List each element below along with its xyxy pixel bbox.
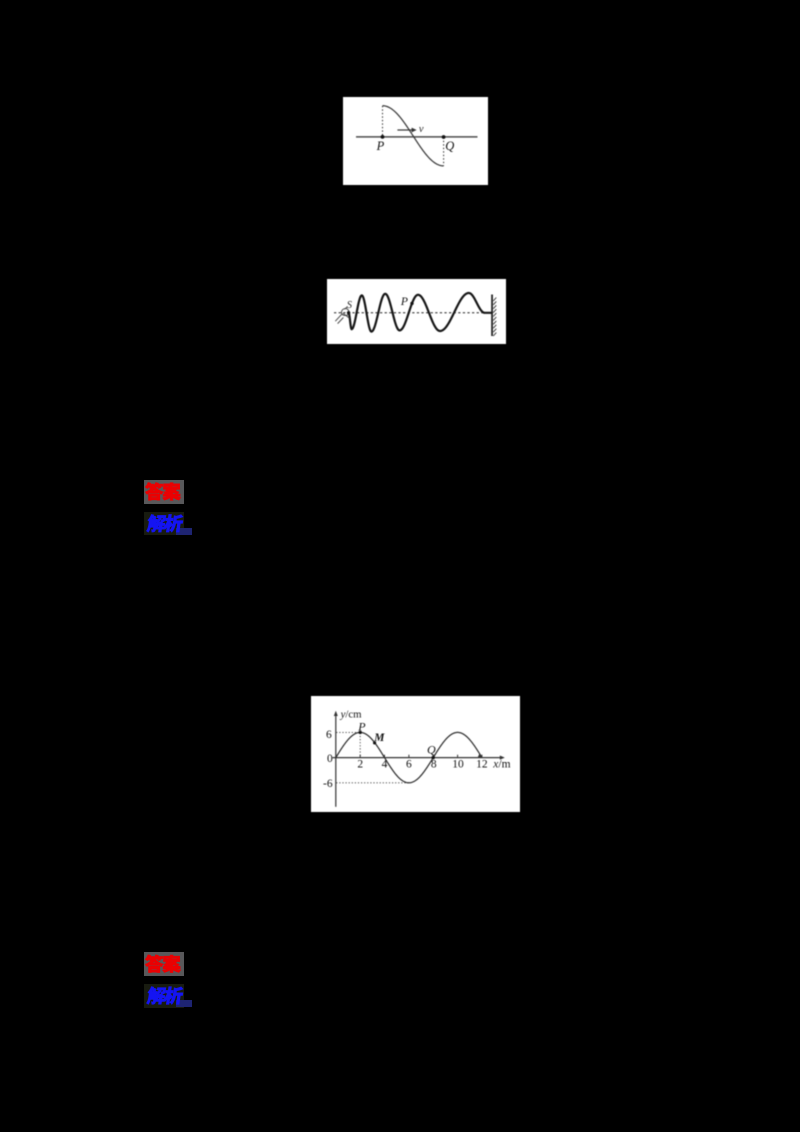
svg-text:Q: Q: [427, 742, 436, 756]
y axis: [335, 714, 337, 807]
node P dot: [359, 731, 362, 734]
svg-text:M: M: [373, 732, 385, 744]
velocity arrow: [397, 129, 412, 131]
analysis tag 2 (blue italic): [144, 984, 184, 1008]
analysis tag 1 (blue italic): [144, 512, 184, 536]
answer tag 1 (red on gray): [144, 480, 184, 504]
wave end arrowhead: [478, 754, 483, 757]
svg-text:P: P: [376, 139, 385, 153]
svg-text:v: v: [419, 124, 424, 135]
dotted vertical at P: [382, 106, 384, 137]
svg-text:-6: -6: [323, 778, 333, 790]
node Q dot: [442, 135, 446, 139]
axis ticks: [360, 755, 482, 758]
figure 3: y/cm vs x/m sine graph: [311, 696, 520, 812]
node M dot: [373, 741, 376, 744]
svg-text:4: 4: [382, 759, 388, 771]
dotted guide lines: [336, 732, 409, 782]
dotted vertical at Q: [443, 137, 445, 166]
answer tag 2 (red on gray): [144, 952, 184, 976]
wire horizontal axis line: [356, 136, 478, 138]
node S dot: [347, 311, 350, 314]
svg-text:10: 10: [452, 759, 464, 771]
svg-text:S: S: [347, 300, 353, 311]
dashed center line: [334, 312, 492, 314]
selection navy rect 2: [176, 1000, 192, 1008]
node P dot: [381, 135, 385, 139]
figure 2: hand-shaken rope wave to a wall: [327, 279, 506, 344]
svg-text:x/m: x/m: [492, 759, 510, 771]
svg-text:8: 8: [431, 759, 437, 771]
node P dot: [410, 302, 413, 305]
svg-text:2: 2: [357, 759, 363, 771]
svg-text:6: 6: [326, 729, 332, 741]
svg-text:12: 12: [476, 759, 488, 771]
wave pulse curve: [383, 106, 444, 166]
node Q dot: [432, 756, 435, 759]
wall: [491, 295, 493, 337]
hand sketch: [335, 307, 349, 324]
sine curve: [336, 732, 482, 782]
svg-text:Q: Q: [445, 139, 454, 153]
x numbers: [357, 759, 488, 771]
selection navy rect 1: [176, 528, 192, 535]
svg-text:P: P: [400, 296, 408, 308]
x axis: [333, 757, 501, 759]
svg-text:6: 6: [406, 759, 412, 771]
svg-text:P: P: [357, 720, 366, 734]
figure 1: transverse wave pulse with points P and Q: [343, 97, 488, 185]
rope wave curve: [349, 293, 492, 332]
svg-text:0: 0: [327, 753, 333, 765]
